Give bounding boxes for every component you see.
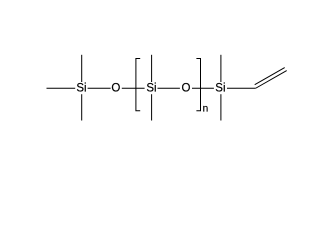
wire methyl-Si1 bond <box>47 87 76 89</box>
wire Si2 bottom methyl bond <box>151 94 153 120</box>
wire Si1 bottom methyl bond <box>81 94 83 120</box>
vinyl C=C double bond second line <box>255 68 285 85</box>
svg-text:n: n <box>203 104 209 115</box>
wire Si1-O1 bond <box>88 87 111 89</box>
svg-text:O: O <box>111 83 120 95</box>
wire Si3-vinyl bond <box>227 87 256 89</box>
vinyl C=C double bond main line <box>256 71 287 89</box>
svg-text:O: O <box>182 83 191 95</box>
svg-text:Si: Si <box>146 83 156 95</box>
right repeat bracket <box>196 58 200 110</box>
wire Si2 top methyl bond <box>151 55 153 82</box>
svg-text:Si: Si <box>76 83 86 95</box>
wire Si3 bottom methyl bond <box>220 94 222 120</box>
left repeat bracket <box>136 58 140 110</box>
wire Si3 top methyl bond <box>220 55 222 82</box>
wire O2-Si3 bond <box>192 87 214 89</box>
svg-text:Si: Si <box>215 83 225 95</box>
wire Si1 top methyl bond <box>81 55 83 82</box>
wire O1-Si2 bond <box>122 87 145 89</box>
wire Si2-O2 bond <box>158 87 180 89</box>
